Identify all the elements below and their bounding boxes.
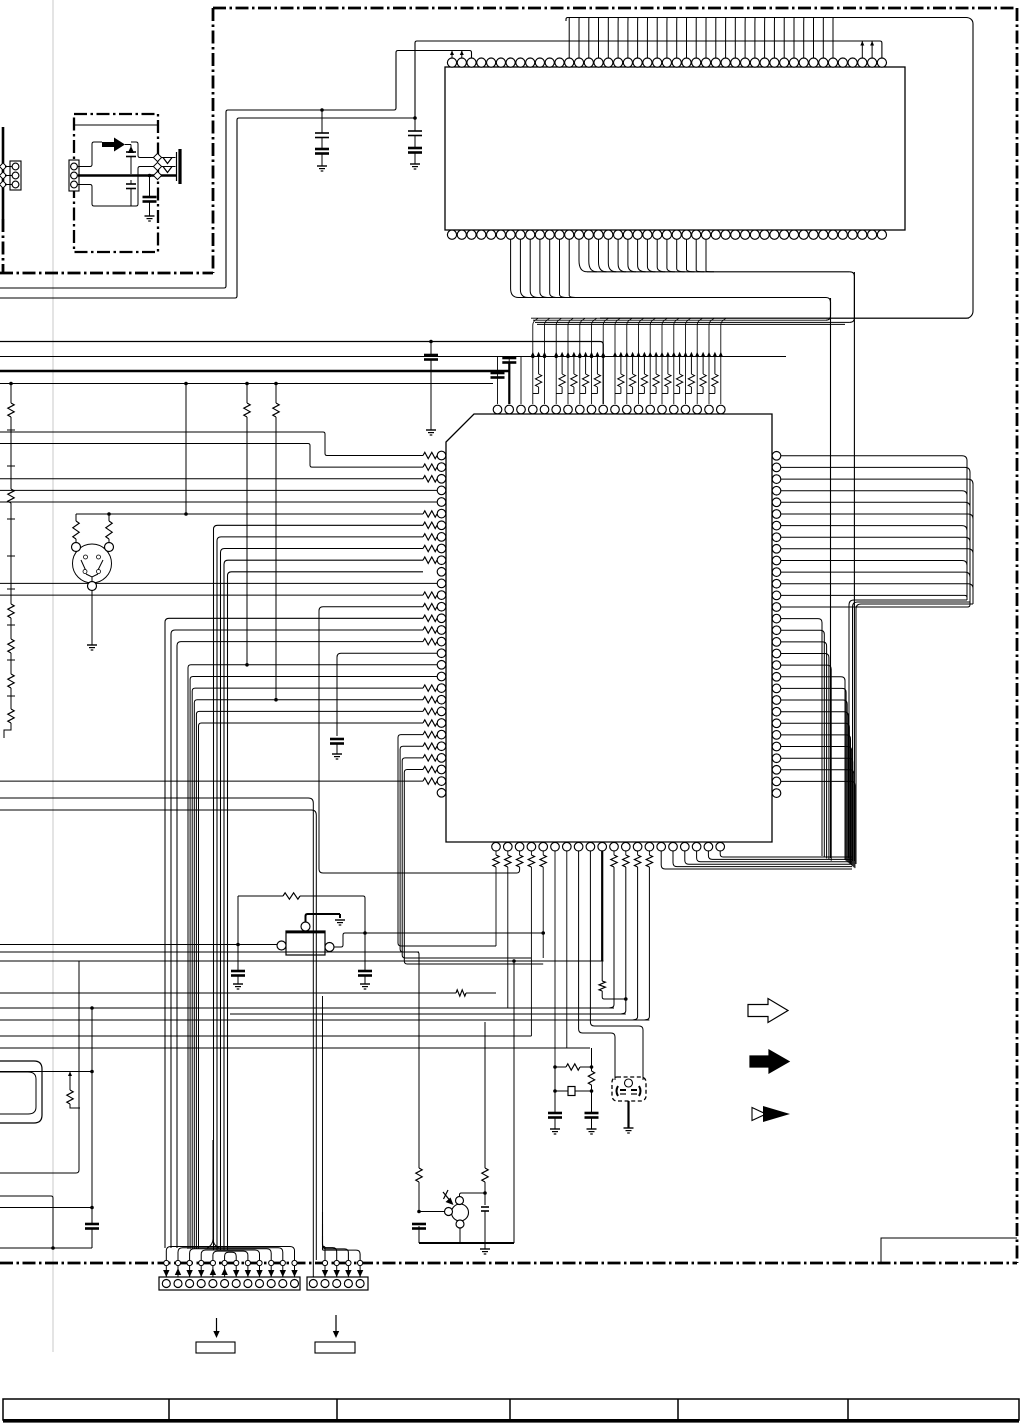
CN1 fan bus [166,1247,294,1261]
wire rows18-23 bundle to CN1 [188,665,437,1249]
title block thick base [3,1419,1019,1423]
transistor Q1 body [286,931,325,955]
band drops to U1 pins [533,318,726,404]
CN1 label arrow [216,1318,218,1331]
resistor R23 [275,384,277,404]
feedthru F5 [0,172,7,179]
jack contact V1 [163,158,172,164]
IC U1 top pins [493,405,725,414]
connector CN2 body [307,1277,368,1290]
capacitor C24 [481,1206,489,1208]
wire V80 [0,961,79,1173]
stub pin 1 [461,51,463,59]
IC U1 left pins [437,451,446,797]
wire gnd stub [484,1243,486,1249]
wire rows6-10 bundle to CN1 [214,522,438,1250]
right pins bus upper [781,456,973,864]
page edge dash-dot lower [2,219,5,273]
CN1 pin drops with arrows [163,1260,298,1277]
resistor R33 [542,851,544,855]
wire h798 to CN2 pin1 [0,798,313,1277]
ground G9 [550,1128,560,1130]
resistor R20 [75,514,77,521]
transistor Q1 pins [301,922,310,931]
jack contact V2 [163,167,172,173]
rail VREF [0,383,493,385]
capacitor C19 [231,970,245,973]
wire net XTALOUT [0,51,472,289]
U1 top pin stubs [498,357,522,405]
CN1 center feed [212,1140,214,1239]
wire CN4 2 [5,175,12,177]
wire k7 xtal [579,851,615,1080]
wire h1071 [0,1071,92,1073]
legend arrow double [752,1108,766,1121]
wire CN4 1 [5,166,12,168]
title block divider 4 [677,1399,679,1420]
wire h896 [238,895,283,897]
wire V238 [237,896,239,971]
capacitor C1 [126,151,136,153]
bottom pins return bus [661,851,852,869]
wire V186 [185,384,187,515]
wire h1036 [0,1035,531,1037]
fold line [52,0,54,1352]
rail VDD [0,356,786,358]
connector CN4 body [10,161,21,190]
resistor R31 [507,851,509,855]
resonator Y2 [554,1067,556,1091]
wire h1207 [0,1207,92,1209]
wire V365 [364,933,366,971]
wire h1196 [0,1196,53,1248]
wire motor bottom [459,1228,461,1243]
wire CN4 3 [5,184,12,186]
resistor R30 [495,851,497,855]
capacitor C22 [591,1091,593,1113]
wire h1014 [230,1013,626,1015]
capacitor C15 [430,342,432,356]
ground G5 [87,644,97,646]
wire h1048 [0,1047,590,1049]
connector CN3 pins [71,163,78,170]
title block divider 2 [336,1399,338,1420]
IC U2 body [445,67,905,230]
board outline dash-dot right [1016,8,1019,1263]
resistor R45 [482,1168,488,1182]
title block outer [3,1399,1019,1420]
CN2 fan [323,996,361,1260]
shield box dash-dot [74,114,158,252]
capacitor C3 [149,176,151,198]
top bus pin drops [569,18,833,58]
CN2 label box [315,1342,355,1353]
title block divider 1 [168,1399,170,1420]
wire row0 [0,432,423,456]
ground G1 [317,165,327,167]
rotary switch SW1 body [73,544,112,583]
wire k6 osc [566,851,568,1048]
feedthru F3 [153,171,161,179]
wire row1 [0,444,423,468]
stub pin 43 [871,41,873,58]
wire osc node1 [553,1065,557,1069]
connector CN1 body [159,1277,300,1290]
wire mid thick [78,174,155,176]
wire row17 to C18 [337,653,437,736]
IC U1 body [446,414,772,842]
connector CN1 pins [162,1280,298,1288]
capacitor C23 [85,1223,99,1226]
distribution band [531,276,969,324]
ground G8 [360,983,370,985]
wire rows14-16 bundle to CN1 [165,615,437,1248]
resistor R44 [416,1168,422,1182]
CN2 pin drops with arrows [322,1260,364,1277]
capacitor C18 [330,738,344,741]
wire row13 loop [319,607,520,873]
resistor R38 [601,961,603,981]
capacitor C11 [321,110,323,133]
wire sig top2 [125,144,131,146]
motor M1 [452,1204,469,1221]
ground G4 [332,753,342,755]
CN1 label box [196,1342,235,1353]
feedthru F6 [0,181,7,188]
wire row2 [0,478,423,480]
IC U2 bottom pins [447,230,886,239]
wire motor top [460,1193,486,1197]
wire V485 [484,1022,486,1168]
title block divider 3 [509,1399,511,1420]
component box edge inner [0,1072,36,1114]
board outline dash-dot left upper [212,8,215,273]
wire rows24-27 bundle [398,731,543,964]
capacitor C17 [508,357,510,359]
wire h993 [0,992,456,994]
wire row5 rotary feed [76,513,423,515]
resistor R29 [516,855,522,867]
board outline dash-dot top [213,7,1017,10]
wire motor left [419,1211,445,1213]
bus B U2 to U1 [579,239,854,276]
ground G12 [480,1248,490,1250]
legend arrow outline [748,999,788,1023]
jack J1 [176,152,178,181]
wire row28 [0,780,423,782]
wire net XTALIN [0,41,882,298]
wire h1020 [0,1019,649,1021]
crystal X1 stem [627,1101,629,1128]
motor ground rail [418,1226,420,1243]
page edge thick segment [2,127,5,219]
ground G2 [410,163,420,165]
resistors R34-R37 [609,851,653,1020]
connector CN2 pins [309,1280,364,1288]
resistor R32 [530,851,532,855]
feedthru F1 [153,153,161,161]
crystal X1 outline [612,1077,646,1101]
resistor R42 [69,1072,71,1091]
wire h933 [334,933,545,947]
capacitor C2 [130,180,132,184]
wire V855 [853,272,855,861]
resistor ladder left margin [4,384,15,739]
flow arrow A1 [102,138,125,152]
wire k5 osc [554,851,556,1067]
motor arrow [443,1192,452,1203]
ground G7 [233,983,243,985]
top bus rail [566,18,973,319]
wire h944 [0,944,277,946]
capacitor C25 [412,1223,426,1226]
wire k9 thick [601,851,603,961]
wire h810 to CN2 [0,810,316,1260]
rotary switch contacts [84,555,88,559]
wire V514b [513,961,515,1243]
wire V419 [0,952,419,1168]
resistor R21 [108,514,110,521]
legend arrow filled [750,1050,789,1073]
wire h1248 [0,1247,92,1249]
right pins bus mid [781,619,831,861]
wire k8 xtal [590,851,643,1080]
capacitor C16 [491,372,505,375]
connector CN3 body [69,160,79,191]
wire Q1 collector [306,914,341,922]
shield inner top line [74,124,158,126]
component box edge outer [0,1061,42,1123]
bus A U2 to U1 [511,239,831,302]
capacitor C12 [315,148,329,151]
title block divider 5 [847,1399,849,1420]
capacitor C21 [554,1091,556,1113]
right pins bus lower [781,677,855,868]
wire h1008 [0,1007,614,1009]
resistor R22 [246,384,248,404]
CN2 label arrow [335,1315,337,1331]
notch box bottom right [881,1238,1017,1263]
feedthru F2 [153,162,161,170]
IC U2 top pins [447,58,886,67]
wire jack top [131,142,155,158]
crystal X1 inner [625,1079,633,1087]
wire rotary ground [91,591,93,646]
feedthru F4 [0,163,7,170]
rail AVDD [0,342,603,405]
resistor R41 [591,1048,593,1071]
IC U1 bottom pins [492,842,725,851]
wire V92 [91,1008,93,1224]
wire h961 [0,960,604,962]
stub pin 42 [861,41,863,58]
resistor R40 [555,1066,566,1068]
wire row12 [0,594,423,596]
wire sig top [78,142,102,167]
connector CN4 pins [12,163,19,170]
board outline dash-dot step [0,272,213,275]
pull-up resistor array [533,357,718,394]
ground G10 [587,1128,597,1130]
wire sig bottom [78,185,131,207]
capacitor C20 [358,970,372,973]
rail VSS thick [0,370,509,372]
wire jack mid [131,167,155,207]
ground G13 [145,215,155,217]
junction arrows top rail [531,352,723,358]
board outline dash-dot bottom [0,1262,1017,1265]
ground G6 [335,919,345,921]
capacitor C13 [414,118,416,131]
stub pin 0 [451,51,453,59]
wire row4 [0,501,437,503]
wire row3 [0,489,437,491]
wire row11 [0,582,437,584]
wire rotary top [75,539,77,543]
wire V830 [830,298,832,858]
ground G11 [624,1127,634,1129]
IC U1 right pins [772,452,781,798]
ground G3 [426,429,436,431]
capacitor C14 [408,147,422,150]
